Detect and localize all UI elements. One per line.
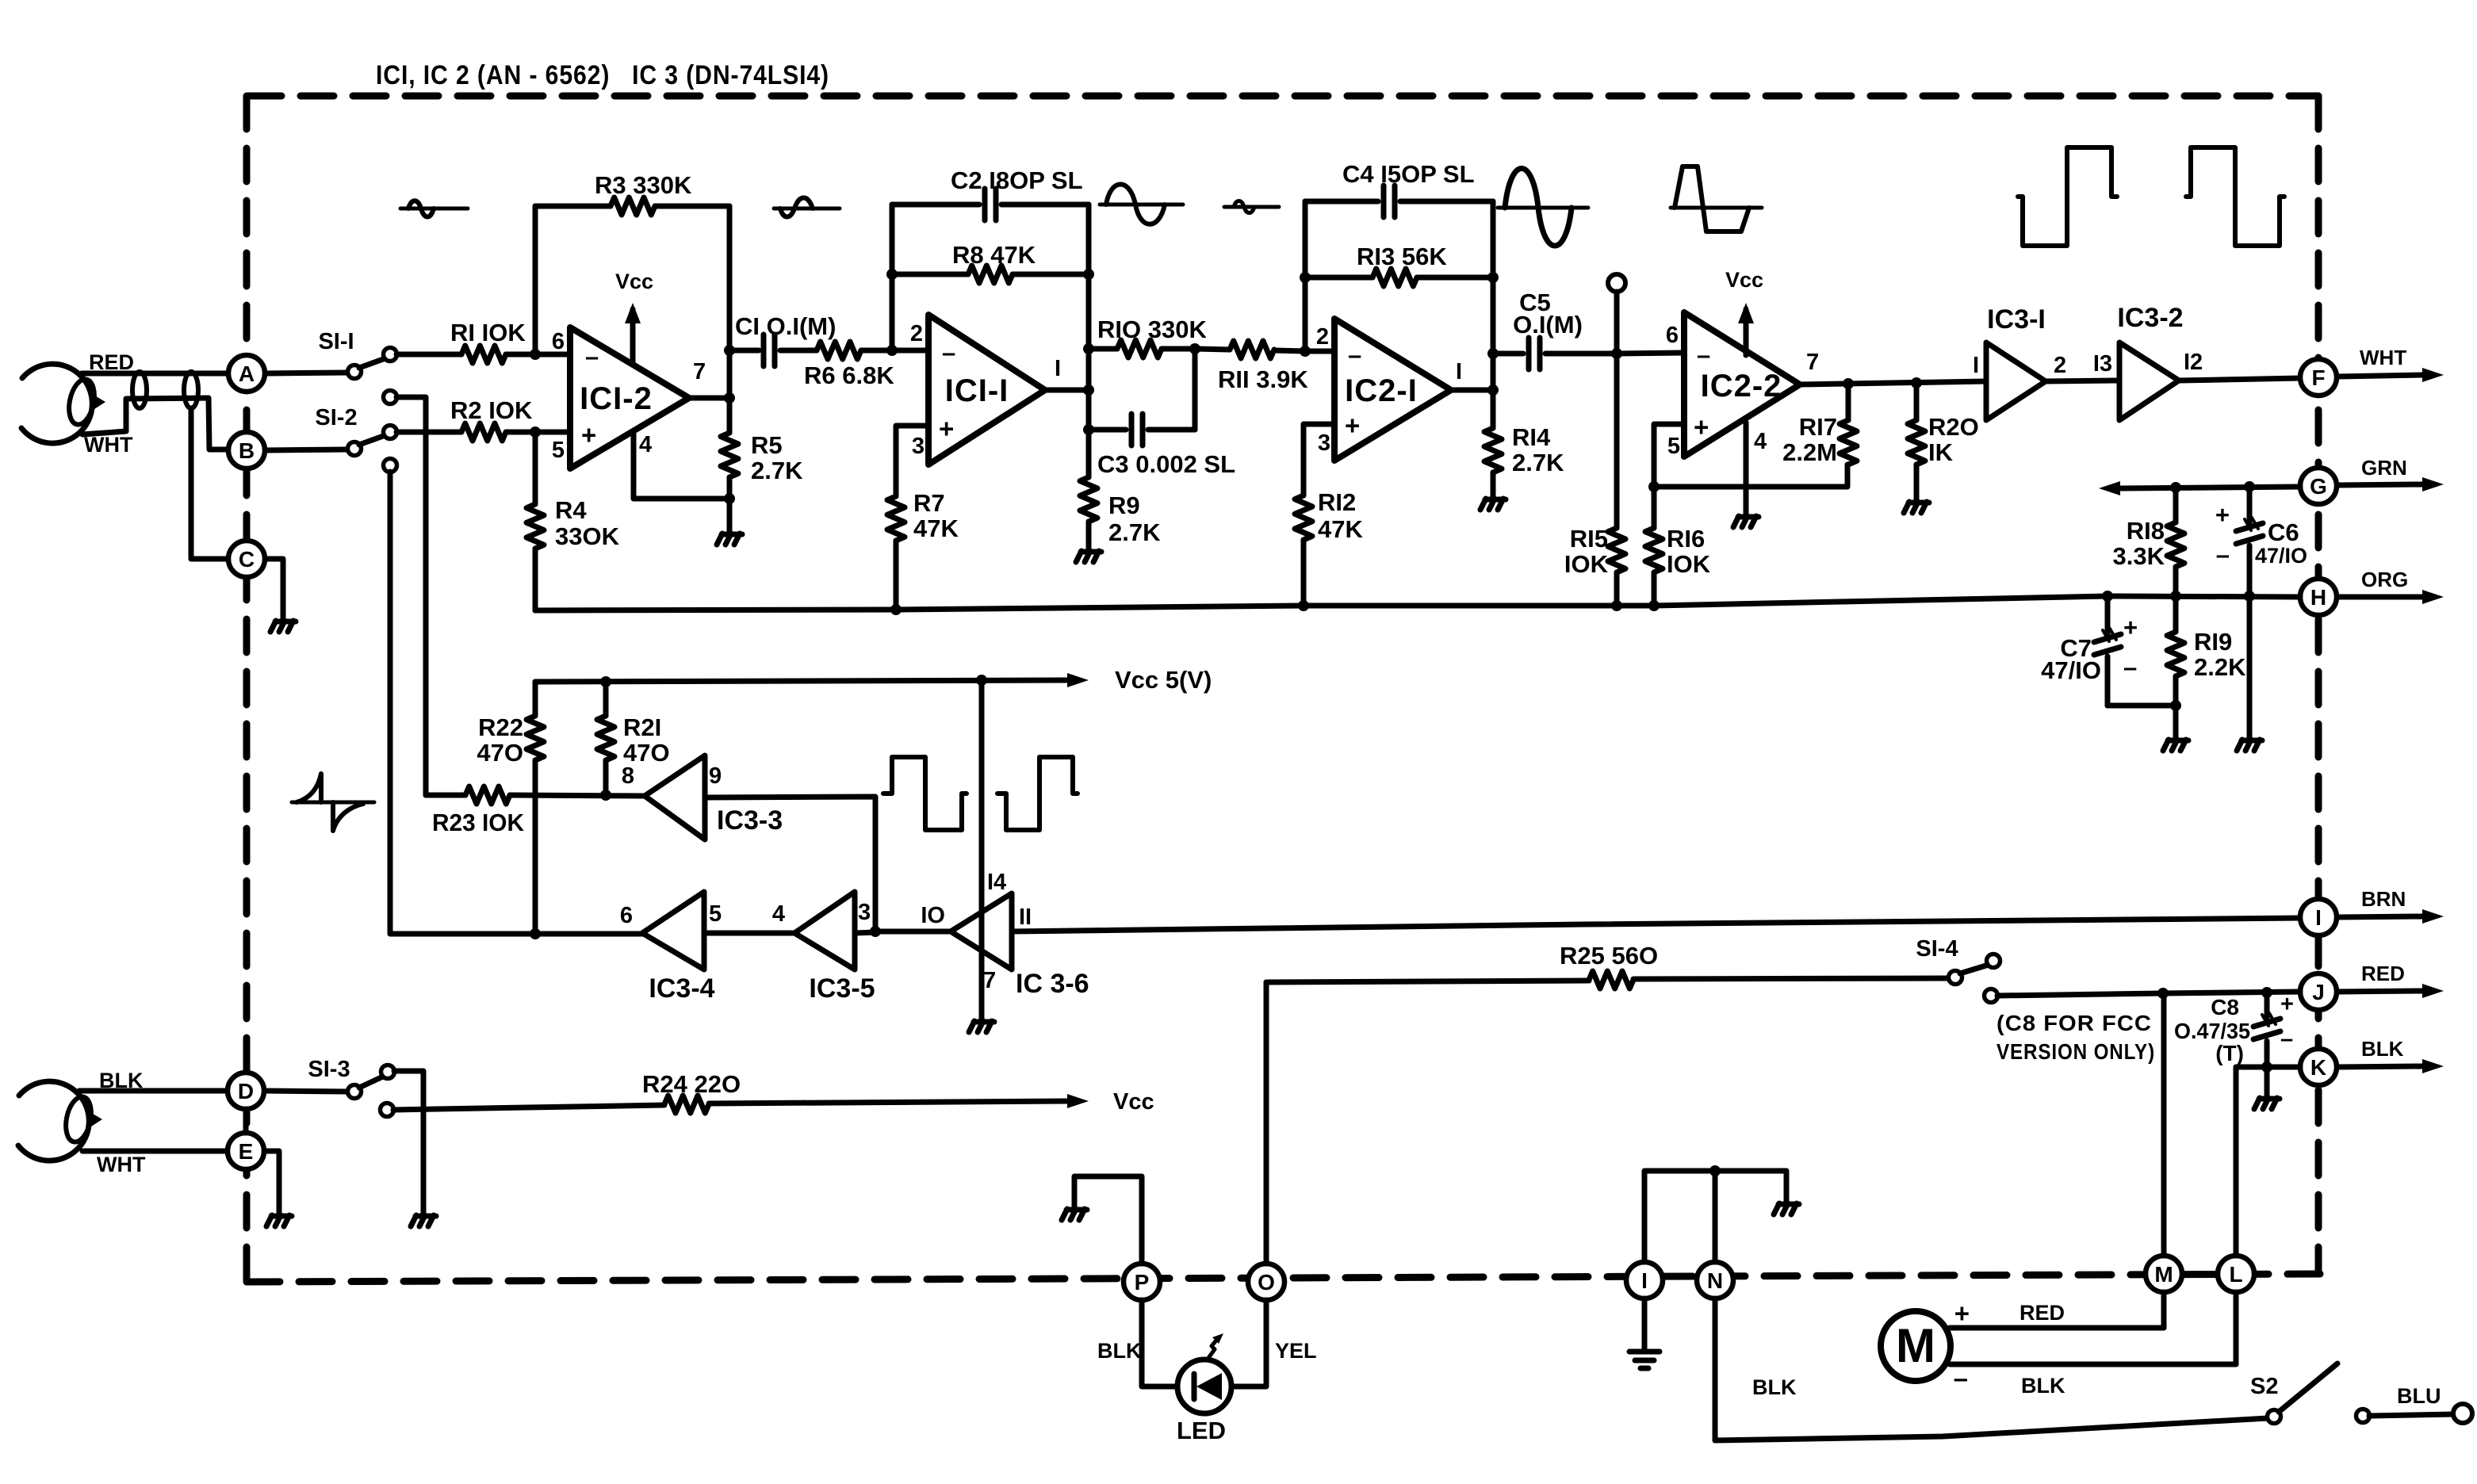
switch S1-4 bbox=[1949, 971, 1962, 985]
svg-text:WHT: WHT bbox=[97, 1153, 146, 1176]
svg-text:–: – bbox=[1348, 341, 1361, 369]
junction C5 tap bbox=[1487, 348, 1499, 359]
resistor R13 bbox=[1305, 275, 1372, 281]
capacitor C7 bbox=[2105, 596, 2111, 634]
svg-text:2.2K: 2.2K bbox=[2194, 653, 2246, 681]
wire R24 to Vcc arrow bbox=[709, 1101, 1066, 1103]
wire jack to node E bbox=[82, 1149, 228, 1154]
wire IC3-4 to IC3-5 bbox=[704, 931, 794, 936]
wire IC2-2 pin5 loop bbox=[1654, 424, 1684, 487]
svg-text:BLK: BLK bbox=[1752, 1375, 1797, 1399]
wire C2 right leg bbox=[1086, 205, 1092, 430]
waveform icon small pulse (stage1 in) bbox=[400, 207, 468, 211]
wire IC2-2 pin4 to ground bbox=[1744, 423, 1749, 514]
ground (tie bar) bbox=[1774, 1203, 1779, 1214]
svg-text:+: + bbox=[1345, 411, 1360, 440]
svg-text:R2I: R2I bbox=[623, 713, 661, 741]
wire IC3-6 input to node I (BRN) bbox=[1012, 918, 2300, 931]
GRN line with left arrow bbox=[2099, 481, 2120, 495]
wire P to ground arm bbox=[1074, 1176, 1142, 1264]
inverter IC3-3 bbox=[645, 755, 705, 840]
svg-text:H: H bbox=[2310, 585, 2326, 610]
node N bbox=[1697, 1262, 1733, 1298]
svg-text:R6 6.8K: R6 6.8K bbox=[804, 361, 894, 389]
svg-text:R3 330K: R3 330K bbox=[595, 171, 692, 199]
svg-text:(C8 FOR FCC: (C8 FOR FCC bbox=[1997, 1011, 2152, 1035]
junction output2 bbox=[1083, 384, 1094, 396]
resistor R24 bbox=[664, 1096, 709, 1113]
ground (R5) bbox=[717, 534, 722, 545]
svg-text:R24 22O: R24 22O bbox=[642, 1070, 741, 1098]
wire L riser bbox=[2234, 1067, 2239, 1256]
junction C1 bbox=[724, 345, 735, 356]
wire R23 line bbox=[426, 793, 465, 798]
capacitor C5 bbox=[1493, 351, 1523, 357]
wire IC1-2 output bbox=[689, 396, 729, 401]
svg-text:IC 3-6: IC 3-6 bbox=[1016, 969, 1089, 999]
svg-text:I: I bbox=[1641, 1268, 1648, 1293]
resistor R4 bbox=[533, 432, 538, 504]
svg-text:7: 7 bbox=[1806, 350, 1819, 375]
svg-text:RI IOK: RI IOK bbox=[450, 319, 526, 346]
wire J line bbox=[2163, 992, 2300, 993]
S1-1 spare throw bbox=[384, 391, 397, 404]
node J bbox=[2300, 973, 2337, 1010]
svg-text:WHT: WHT bbox=[2360, 346, 2406, 369]
svg-text:C: C bbox=[239, 547, 255, 572]
waveform icon square wave 1 bbox=[2018, 147, 2117, 246]
svg-text:IO: IO bbox=[921, 903, 945, 928]
wire R6 to pin2 junction bbox=[861, 348, 892, 354]
wire IC3-3 output to IC3-5/6 line bbox=[705, 797, 875, 931]
svg-text:+: + bbox=[939, 414, 954, 443]
node P bbox=[1124, 1264, 1160, 1300]
svg-text:RI4: RI4 bbox=[1512, 423, 1551, 451]
inverter IC3-2 bbox=[2119, 342, 2179, 420]
svg-text:ICI, IC 2 (AN - 6562) IC 3 (: ICI, IC 2 (AN - 6562) IC 3 (DN-74LSI4) bbox=[376, 60, 829, 90]
svg-text:R5: R5 bbox=[751, 431, 783, 459]
junction C4 left leg bottom bbox=[1300, 346, 1311, 357]
ground (R20) bbox=[1904, 502, 1909, 513]
junction R15 bottom bbox=[1611, 600, 1622, 611]
junction R12 bottom bbox=[1298, 600, 1309, 611]
junction R10/R11 bbox=[1189, 343, 1200, 354]
waveform icon square wave 3 (IC3-3 out) bbox=[883, 757, 967, 830]
svg-text:IK: IK bbox=[1928, 438, 1954, 466]
junction pin2 IC1-1 bbox=[886, 345, 898, 356]
wire C8 to ground bbox=[2265, 1067, 2270, 1096]
svg-text:C4 I5OP SL: C4 I5OP SL bbox=[1342, 160, 1475, 188]
input jack J2 (BLK/WHT phone plug) bbox=[18, 1081, 89, 1161]
wire IC1-1 output bbox=[1045, 388, 1089, 393]
svg-text:I: I bbox=[1456, 359, 1462, 384]
wire jack sleeve to node B bbox=[82, 398, 228, 449]
resistor R20 bbox=[1914, 383, 1920, 420]
dashed enclosure border (PCB boundary) bbox=[247, 96, 2320, 1282]
resistor R6 bbox=[817, 342, 861, 359]
junction R8 left bbox=[886, 269, 898, 280]
ground (S1-3) bbox=[411, 1215, 416, 1226]
svg-text:2: 2 bbox=[910, 321, 923, 346]
svg-text:II: II bbox=[1019, 905, 1032, 930]
junction R19 top bbox=[2170, 591, 2181, 602]
op-amp IC2-1 bbox=[1334, 319, 1451, 461]
svg-text:–: – bbox=[1954, 1364, 1968, 1393]
svg-text:+: + bbox=[2280, 992, 2294, 1017]
wire node C to ground bbox=[266, 559, 283, 618]
junction output1 bbox=[724, 392, 735, 404]
capacitor C8 bbox=[2265, 993, 2270, 1019]
junction C8 top bbox=[2261, 987, 2272, 998]
resistor R18 bbox=[2173, 488, 2179, 522]
S1-4 lower contact bbox=[1985, 989, 1998, 1003]
motor M1 bbox=[1881, 1311, 1951, 1381]
wire R3 left leg bbox=[533, 206, 538, 354]
svg-text:–: – bbox=[2280, 1027, 2293, 1052]
svg-text:B: B bbox=[239, 438, 255, 463]
chassis ground (X) bbox=[1629, 1349, 1660, 1355]
svg-text:Vcc: Vcc bbox=[1725, 268, 1763, 292]
junction IC3-6 pin14 bbox=[976, 675, 987, 686]
svg-text:–: – bbox=[585, 342, 599, 370]
svg-text:2: 2 bbox=[1316, 324, 1329, 350]
open terminal BLU bbox=[2453, 1404, 2472, 1423]
wire junction to IC3-6 bbox=[875, 929, 951, 935]
svg-text:I2: I2 bbox=[2184, 350, 2203, 375]
svg-text:RED: RED bbox=[2020, 1301, 2065, 1325]
resistor R14 bbox=[1491, 390, 1496, 428]
switch S1-2 bbox=[348, 442, 362, 456]
svg-text:47K: 47K bbox=[913, 514, 959, 542]
svg-text:BLU: BLU bbox=[2397, 1384, 2441, 1408]
inverter IC3-4 bbox=[642, 892, 704, 970]
wire S2 to BLU terminal bbox=[2369, 1414, 2453, 1416]
svg-text:O: O bbox=[1258, 1270, 1275, 1295]
svg-text:R2O: R2O bbox=[1928, 413, 1979, 441]
wire Vcc 5V line bbox=[535, 680, 1066, 682]
svg-text:IC2-2: IC2-2 bbox=[1701, 369, 1782, 404]
svg-text:+: + bbox=[581, 420, 596, 449]
svg-text:RI3 56K: RI3 56K bbox=[1357, 243, 1447, 270]
wire mid-supply bus bbox=[535, 596, 2300, 610]
switch S1-1 bbox=[348, 365, 362, 379]
svg-text:5: 5 bbox=[709, 901, 722, 927]
wire IC2-2 output bbox=[1800, 381, 1986, 384]
svg-text:–: – bbox=[2123, 653, 2137, 681]
wire S1-3 throw to ground bbox=[394, 1071, 423, 1213]
op-amp IC1-1 bbox=[928, 315, 1045, 465]
ground (IC3-6 pin7) bbox=[969, 1021, 974, 1032]
ground (E) bbox=[266, 1215, 272, 1226]
cable marker oval 2 bbox=[184, 372, 198, 408]
svg-text:7: 7 bbox=[693, 359, 706, 384]
Vcc arrow (R24) bbox=[1067, 1094, 1089, 1108]
wire S1-1 spare to vertical bbox=[396, 397, 426, 795]
svg-text:GRN: GRN bbox=[2361, 456, 2407, 480]
junction C6 top bbox=[2244, 481, 2255, 492]
svg-text:2.7K: 2.7K bbox=[751, 457, 803, 484]
wire IC3-2 to node F bbox=[2179, 378, 2300, 381]
svg-text:ICI-2: ICI-2 bbox=[580, 381, 653, 416]
wire S1-2 to R2 bbox=[396, 430, 461, 435]
svg-text:8: 8 bbox=[622, 763, 634, 789]
svg-text:RI5: RI5 bbox=[1570, 525, 1608, 553]
svg-text:R8 47K: R8 47K bbox=[952, 241, 1036, 269]
svg-text:M: M bbox=[2154, 1262, 2173, 1287]
svg-text:2.7K: 2.7K bbox=[1512, 449, 1564, 476]
node L bbox=[2218, 1256, 2254, 1292]
junction pin5 bbox=[530, 426, 541, 438]
junction R21 bottom bbox=[600, 790, 611, 801]
svg-text:IC3-3: IC3-3 bbox=[717, 805, 783, 836]
resistor R1 bbox=[461, 346, 506, 363]
resistor R10 bbox=[1089, 346, 1117, 352]
svg-text:+: + bbox=[2123, 614, 2138, 641]
svg-text:I4: I4 bbox=[987, 870, 1006, 895]
junction R5 bottom bbox=[724, 493, 735, 504]
switch S1-3 bbox=[348, 1085, 362, 1099]
svg-text:4: 4 bbox=[1754, 429, 1767, 454]
svg-text:IC3-5: IC3-5 bbox=[809, 973, 875, 1004]
capacitor C6 bbox=[2247, 487, 2253, 523]
svg-text:IC3-4: IC3-4 bbox=[649, 973, 714, 1004]
resistor R12 bbox=[1295, 495, 1312, 540]
svg-text:R9: R9 bbox=[1108, 491, 1140, 519]
resistor R3 bbox=[535, 204, 611, 209]
node B bbox=[228, 432, 265, 469]
svg-text:S2: S2 bbox=[2250, 1374, 2278, 1399]
node G bbox=[2300, 468, 2337, 504]
svg-text:2: 2 bbox=[2054, 353, 2066, 378]
node D bbox=[228, 1073, 264, 1109]
svg-text:K: K bbox=[2310, 1055, 2326, 1080]
wire IC3-1 to IC3-2 bbox=[2046, 381, 2119, 381]
inverter IC3-6 bbox=[951, 893, 1012, 970]
svg-text:4: 4 bbox=[772, 901, 785, 927]
node A bbox=[228, 355, 265, 392]
svg-text:–: – bbox=[942, 338, 955, 366]
wire junction to IC1-2 pin5 bbox=[535, 430, 570, 435]
wire N riser bbox=[1713, 1171, 1718, 1262]
wire R23 to IC3-3 bbox=[510, 795, 645, 796]
svg-text:IOK: IOK bbox=[1667, 550, 1711, 578]
svg-text:C8: C8 bbox=[2211, 995, 2239, 1019]
wire K line to L riser bbox=[2236, 1067, 2300, 1256]
svg-text:RI2: RI2 bbox=[1318, 488, 1356, 516]
resistor R25 bbox=[1589, 971, 1633, 989]
wire D to S1-3 bbox=[265, 1091, 348, 1092]
svg-text:6: 6 bbox=[552, 329, 565, 354]
node F bbox=[2300, 359, 2337, 396]
svg-text:VERSION ONLY): VERSION ONLY) bbox=[1997, 1039, 2155, 1064]
wire jack to node D bbox=[79, 1088, 228, 1094]
wire oval2 shield to node C bbox=[191, 408, 228, 559]
svg-text:3: 3 bbox=[912, 434, 925, 459]
ground (P arm) bbox=[1062, 1209, 1067, 1220]
svg-text:4: 4 bbox=[639, 432, 652, 457]
wire D-E link bbox=[243, 1109, 249, 1133]
svg-text:SI-I: SI-I bbox=[318, 329, 354, 354]
wire C1 to R6 bbox=[780, 348, 817, 354]
capacitor C3 bbox=[1089, 427, 1126, 433]
resistor R19 bbox=[2173, 596, 2179, 632]
svg-text:BLK: BLK bbox=[1097, 1339, 1142, 1363]
input jack J1 (RED/WHT phone plug) bbox=[21, 364, 92, 443]
svg-text:R22: R22 bbox=[478, 713, 523, 741]
svg-text:CI O.I(M): CI O.I(M) bbox=[735, 312, 836, 340]
open terminal above R15 bbox=[1608, 274, 1625, 292]
Vcc arrow IC1-2 bbox=[630, 309, 636, 365]
waveform icon large sine (stage3 out) bbox=[1498, 206, 1588, 210]
wire jack tip to node A bbox=[82, 371, 228, 377]
wire IC3-5 to junction bbox=[855, 932, 875, 933]
svg-text:BLK: BLK bbox=[2361, 1037, 2404, 1061]
wire O to LED cathode bbox=[1231, 1300, 1266, 1386]
junction R20 top bbox=[1911, 377, 1922, 388]
svg-text:IC3-2: IC3-2 bbox=[2117, 303, 2183, 333]
wire R3 right leg bbox=[727, 206, 733, 350]
svg-text:R4: R4 bbox=[555, 496, 587, 524]
resistor R9 bbox=[1086, 430, 1092, 477]
svg-text:47O: 47O bbox=[623, 739, 670, 767]
junction R8 right bbox=[1083, 269, 1094, 280]
junction C8 bottom bbox=[2261, 1061, 2272, 1073]
svg-text:LED: LED bbox=[1177, 1417, 1226, 1444]
resistor R11 bbox=[1195, 349, 1230, 350]
svg-text:R23 IOK: R23 IOK bbox=[432, 809, 525, 836]
resistor R8 bbox=[892, 272, 968, 277]
wire E to ground bbox=[265, 1151, 279, 1213]
waveform icon sine (stage2 out) bbox=[1100, 203, 1183, 207]
svg-text:IOK: IOK bbox=[1564, 550, 1609, 578]
junction R19 bottom bbox=[2170, 700, 2181, 711]
wire R25 to S1-4 bbox=[1633, 978, 1949, 979]
svg-text:6: 6 bbox=[1666, 323, 1679, 348]
svg-text:O.47/35: O.47/35 bbox=[2174, 1019, 2250, 1043]
svg-text:SI-3: SI-3 bbox=[308, 1057, 350, 1082]
ground (C8) bbox=[2254, 1098, 2260, 1109]
junction C7 top bbox=[2102, 591, 2113, 602]
LED D1 bbox=[1177, 1360, 1231, 1413]
ground (R14) bbox=[1480, 499, 1486, 510]
wire IC3-6 pin14/pin7 bbox=[979, 680, 985, 1019]
svg-text:Vcc 5(V): Vcc 5(V) bbox=[1115, 666, 1212, 694]
wire B to S1-2 bbox=[266, 449, 348, 450]
wire R25 line bbox=[1266, 981, 1589, 982]
svg-text:ORG: ORG bbox=[2361, 568, 2408, 591]
wire C4 right leg bbox=[1491, 201, 1496, 390]
svg-text:R25 56O: R25 56O bbox=[1560, 942, 1658, 970]
S1-2 spare throw bbox=[384, 459, 397, 472]
ground (node C) bbox=[270, 621, 276, 632]
wire C6 to ground bbox=[2247, 596, 2253, 737]
junction R21 top bbox=[600, 676, 611, 687]
wire C2 left leg bbox=[890, 205, 895, 350]
svg-text:IC3-I: IC3-I bbox=[1987, 304, 2046, 335]
junction M riser top bbox=[2157, 988, 2169, 999]
svg-text:I: I bbox=[2315, 905, 2322, 930]
svg-text:L: L bbox=[2229, 1262, 2242, 1287]
svg-text:47O: 47O bbox=[477, 739, 523, 767]
junction R16 top bbox=[1648, 481, 1660, 492]
resistor R17 bbox=[1846, 384, 1851, 420]
svg-text:RIO 330K: RIO 330K bbox=[1097, 316, 1207, 343]
svg-text:I: I bbox=[1055, 356, 1061, 381]
waveform icon tiny sine (stage3 in) bbox=[1224, 205, 1279, 209]
waveform icon sawtooth pulses (R23) bbox=[292, 801, 374, 805]
waveform icon square wave 4 (IC3-6 out) bbox=[997, 757, 1078, 830]
svg-text:–: – bbox=[1697, 341, 1710, 369]
wire C5 to IC2-2 pin6 bbox=[1617, 353, 1684, 354]
svg-text:F: F bbox=[2311, 365, 2325, 390]
wire S1-2 spare down to IC3-4 output line bbox=[390, 472, 642, 934]
svg-text:R2 IOK: R2 IOK bbox=[450, 396, 533, 424]
junction R18 top bbox=[2170, 482, 2181, 493]
wire R5 to ground bbox=[727, 499, 733, 531]
wire A to S1-1 bbox=[266, 373, 348, 373]
wire output1 to C1 junction bbox=[727, 350, 733, 398]
wire junction to IC1-1 pin2 bbox=[892, 348, 928, 354]
junction R16 bottom bbox=[1648, 600, 1660, 611]
wire C7 bottom to R19 bbox=[2108, 703, 2176, 709]
svg-text:O.I(M): O.I(M) bbox=[1513, 311, 1583, 338]
junction C5/R15 bbox=[1611, 348, 1622, 359]
wire R19 to ground bbox=[2173, 706, 2179, 737]
cable marker oval 1 bbox=[132, 372, 147, 408]
wire to IC2-1 pin2 bbox=[1305, 349, 1334, 354]
S1-3 lower contact bbox=[381, 1103, 394, 1117]
capacitor C4 bbox=[1305, 199, 1378, 205]
svg-text:47K: 47K bbox=[1318, 515, 1363, 543]
svg-text:IC2-I: IC2-I bbox=[1345, 373, 1418, 408]
svg-text:47/IO: 47/IO bbox=[2255, 544, 2307, 568]
resistor R7 bbox=[887, 496, 905, 541]
svg-text:BLK: BLK bbox=[2021, 1374, 2065, 1398]
junction R10 left bbox=[1083, 343, 1094, 354]
svg-text:C3 0.002 SL: C3 0.002 SL bbox=[1097, 450, 1235, 478]
svg-text:9: 9 bbox=[709, 763, 722, 789]
node H bbox=[2300, 579, 2337, 615]
inverter IC3-1 bbox=[1986, 342, 2046, 420]
wire R2 to pin5 junction bbox=[506, 430, 535, 435]
svg-text:RI8: RI8 bbox=[2127, 517, 2165, 545]
wire IC1-1 pin3 bbox=[896, 426, 928, 496]
svg-text:3: 3 bbox=[1318, 430, 1330, 456]
svg-text:YEL: YEL bbox=[1275, 1339, 1317, 1363]
wire IC2-1 output bbox=[1451, 388, 1493, 393]
svg-text:G: G bbox=[2310, 474, 2327, 499]
svg-text:BRN: BRN bbox=[2361, 887, 2406, 911]
svg-text:RI9: RI9 bbox=[2194, 628, 2232, 656]
wire motor - to L (BLK) bbox=[1950, 1292, 2236, 1364]
capacitor C2 bbox=[892, 202, 979, 208]
node O bbox=[1248, 1264, 1284, 1300]
ground (IC2-2 pin4) bbox=[1733, 516, 1739, 527]
svg-text:5: 5 bbox=[1667, 434, 1680, 459]
waveform icon clipped sine bbox=[1671, 206, 1762, 210]
resistor R22 bbox=[533, 682, 538, 716]
wire R1 to pin6 junction bbox=[506, 352, 535, 358]
junction R7 bottom bbox=[890, 604, 902, 615]
Vcc arrow IC2-2 bbox=[1744, 309, 1749, 355]
ground (C6) bbox=[2237, 740, 2242, 751]
wire O up to R25 corner bbox=[1264, 982, 1269, 1264]
wire X/N tie bar bbox=[1644, 1171, 1786, 1262]
wire S1-3 to R24 bbox=[393, 1105, 664, 1110]
S2 throw contact bbox=[2356, 1409, 2370, 1423]
svg-text:E: E bbox=[239, 1139, 254, 1164]
wire S1-4 to node J line bbox=[1997, 993, 2163, 996]
